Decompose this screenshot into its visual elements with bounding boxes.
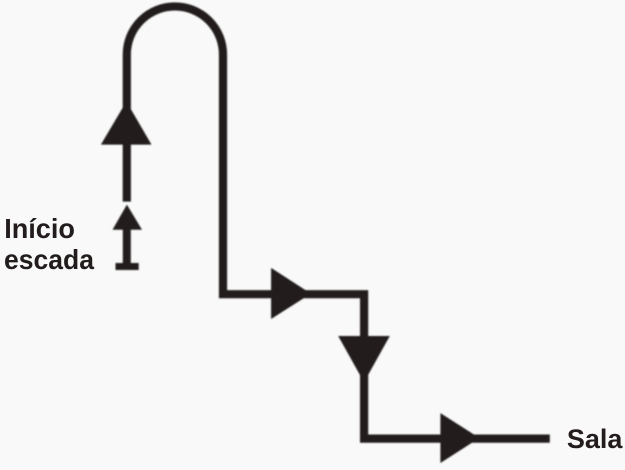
arrowhead right (bottom horizontal) [440,413,479,463]
small arrowhead up [113,205,143,230]
arrowhead up (big, on left leg) [101,102,152,145]
svg-text:Início: Início [4,213,75,244]
base bar [116,263,139,270]
small arrow stem [123,227,131,265]
arrowhead down (on vertical drop) [338,336,390,382]
svg-text:escada: escada [4,244,94,275]
arrowhead right (middle horizontal) [271,268,311,319]
wire: main route line (stem above big arrow, arch, right leg, mid horizontal, drop, bottom horizontal) [127,6,550,438]
start marker: small arrow with base bar (Início escada) [113,205,143,270]
svg-text:Sala: Sala [567,424,624,454]
